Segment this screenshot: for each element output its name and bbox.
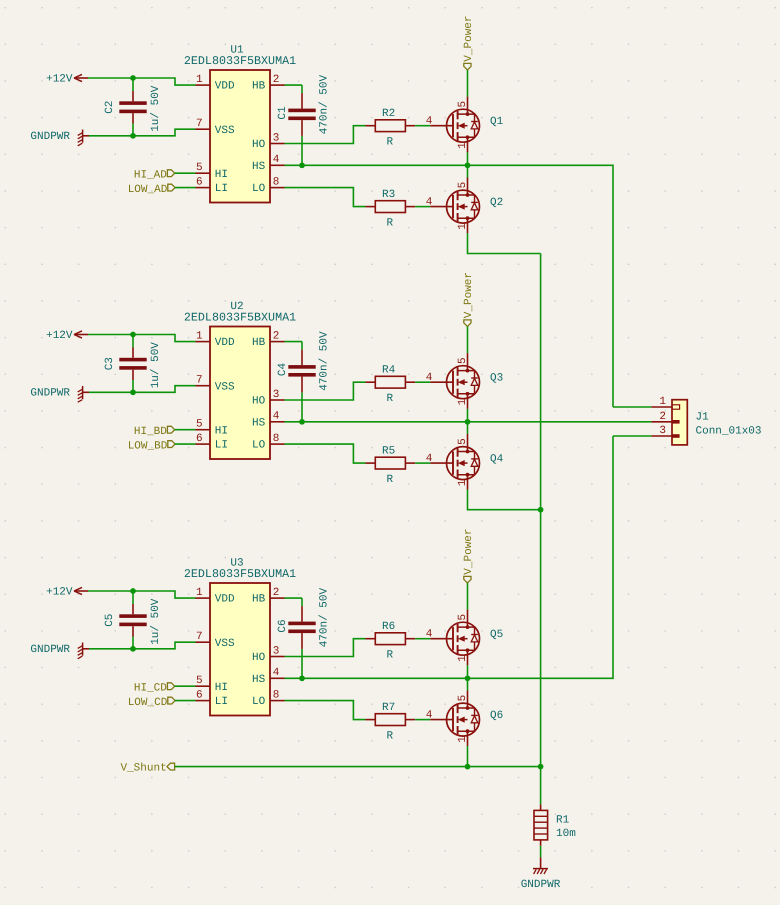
svg-text:R7: R7 [382, 702, 395, 714]
svg-text:V_Power: V_Power [463, 272, 475, 318]
power symbol GNDPWR (bottom) [521, 857, 561, 891]
svg-text:HI_BD: HI_BD [134, 426, 167, 438]
svg-text:2EDL8033F5BXUMA1: 2EDL8033F5BXUMA1 [184, 310, 296, 324]
pin 3 HO [252, 389, 285, 408]
wire HO pin to gate resistor [285, 126, 366, 144]
junction node HS / C6 [299, 675, 305, 681]
svg-text:470n/ 50V: 470n/ 50V [318, 331, 330, 391]
wire LO pin to gate resistor [285, 188, 366, 207]
svg-text:Q4: Q4 [490, 453, 504, 465]
svg-text:5: 5 [196, 162, 203, 174]
svg-text:R: R [386, 650, 393, 662]
svg-text:3: 3 [273, 645, 280, 657]
junction node HS / Q3 source [465, 419, 471, 425]
svg-text:5: 5 [457, 695, 469, 702]
hierarchical label V_Power [463, 272, 475, 327]
junction node GNDPWR / C3 [130, 389, 136, 395]
pin 7 VSS [196, 118, 236, 137]
svg-text:R3: R3 [382, 189, 395, 201]
op-amp/driver IC U3 2EDL8033F5BXUMA1 [184, 558, 296, 716]
pin 5 HI [196, 419, 229, 438]
svg-text:1u/ 50V: 1u/ 50V [150, 598, 162, 645]
wire HS phase C to J1 pin 3 [285, 436, 614, 678]
pin 6 LI [196, 176, 229, 195]
svg-text:Q5: Q5 [490, 629, 503, 641]
svg-text:R6: R6 [382, 621, 395, 633]
svg-text:8: 8 [273, 689, 280, 701]
wire HI_CD to HI pin [175, 685, 196, 687]
svg-text:HB: HB [252, 337, 266, 349]
svg-text:4: 4 [426, 453, 433, 465]
wire Q6 source to V_Shunt net [467, 746, 469, 767]
capacitor C5 1u 50V [104, 591, 162, 649]
transistor Q1 N-MOSFET [426, 97, 504, 153]
wire +12V to junction [88, 77, 133, 79]
svg-text:5: 5 [457, 101, 469, 108]
power symbol +12V [46, 74, 88, 86]
svg-text:5: 5 [457, 438, 469, 445]
junction node V_Shunt [465, 764, 471, 770]
junction node GNDPWR / C2 [130, 133, 136, 139]
power symbol +12V [46, 330, 88, 342]
svg-text:4: 4 [426, 629, 433, 641]
hierarchical label V_Power [463, 15, 475, 70]
op-amp/driver IC U1 2EDL8033F5BXUMA1 [184, 45, 296, 203]
resistor R4 value R [366, 365, 416, 406]
pin 6 LI [196, 689, 229, 708]
svg-text:470n/ 50V: 470n/ 50V [318, 75, 330, 135]
svg-text:5: 5 [196, 419, 203, 431]
pin 6 LI [196, 433, 229, 452]
wire R5 to Q4 gate [415, 462, 430, 464]
svg-text:HB: HB [252, 81, 266, 93]
wire V_Shunt net [175, 766, 541, 768]
wire +12V to junction [88, 334, 133, 336]
svg-text:VDD: VDD [215, 81, 235, 93]
svg-text:6: 6 [196, 689, 203, 701]
svg-text:Q6: Q6 [490, 710, 503, 722]
wire J1 pin 1 [613, 406, 651, 408]
capacitor C4 470n 50V [277, 331, 330, 422]
svg-text:HI: HI [215, 682, 228, 694]
svg-text:VSS: VSS [215, 381, 235, 393]
pin 1 VDD [196, 587, 236, 606]
wire HS net to Q2 drain [467, 165, 469, 177]
power symbol GNDPWR [30, 130, 89, 146]
svg-text:1: 1 [659, 396, 666, 408]
pin 4 HS [252, 411, 285, 430]
svg-text:C3: C3 [104, 357, 116, 370]
junction node +12V / C2 [130, 75, 136, 81]
wire LO pin to gate resistor [285, 444, 366, 463]
svg-text:1: 1 [196, 587, 203, 599]
junction node HS / C4 [299, 419, 305, 425]
svg-text:Conn_01x03: Conn_01x03 [696, 426, 762, 438]
svg-text:8: 8 [273, 176, 280, 188]
svg-text:2EDL8033F5BXUMA1: 2EDL8033F5BXUMA1 [184, 54, 296, 68]
junction node HS / Q5 source [465, 675, 471, 681]
wire V_Power to Q1 drain [467, 70, 469, 97]
wire shunt bus vertical lower [540, 510, 542, 767]
svg-text:+12V: +12V [46, 74, 73, 86]
wire junction to VSS pin [133, 386, 196, 393]
svg-text:HO: HO [252, 139, 266, 151]
pin 1 [651, 396, 679, 409]
pin 3 HO [252, 132, 285, 151]
svg-text:V_Power: V_Power [463, 15, 475, 61]
svg-text:HS: HS [252, 161, 266, 173]
svg-text:10m: 10m [556, 828, 576, 840]
transistor Q4 N-MOSFET [426, 434, 504, 490]
power symbol GNDPWR [30, 643, 89, 659]
wire LO pin to gate resistor [285, 701, 366, 720]
resistor R3 value R [366, 189, 416, 230]
svg-text:4: 4 [426, 196, 433, 208]
wire junction to VDD pin [133, 335, 196, 342]
svg-text:LI: LI [215, 183, 228, 195]
wire junction to VDD pin [133, 591, 196, 598]
svg-text:C6: C6 [277, 619, 289, 632]
svg-text:HI: HI [215, 169, 228, 181]
svg-text:4: 4 [426, 709, 433, 721]
svg-text:1: 1 [457, 655, 469, 662]
hierarchical label HI_BD [134, 426, 175, 438]
svg-text:7: 7 [196, 118, 203, 130]
svg-text:HB: HB [252, 594, 266, 606]
svg-text:1: 1 [196, 330, 203, 342]
capacitor C1 470n 50V [277, 75, 330, 166]
hierarchical label LOW_CD [128, 697, 175, 709]
svg-text:1: 1 [457, 142, 469, 149]
junction node V_Shunt / shunt bus [538, 764, 544, 770]
wire LOW_BD to LI pin [175, 443, 196, 445]
power symbol +12V [46, 587, 88, 599]
svg-text:V_Shunt: V_Shunt [120, 763, 166, 775]
transistor Q6 N-MOSFET [426, 691, 504, 747]
svg-text:2: 2 [659, 411, 666, 423]
svg-text:1u/ 50V: 1u/ 50V [150, 342, 162, 389]
svg-text:3: 3 [659, 425, 666, 437]
svg-text:GNDPWR: GNDPWR [30, 644, 70, 656]
wire +12V to junction [88, 590, 133, 592]
wire R3 to Q2 gate [415, 206, 430, 208]
svg-text:2EDL8033F5BXUMA1: 2EDL8033F5BXUMA1 [184, 567, 296, 581]
wire LOW_CD to LI pin [175, 700, 196, 702]
pin 8 LO [252, 689, 285, 708]
wire HO pin to gate resistor [285, 639, 366, 657]
svg-text:LOW_AD: LOW_AD [128, 184, 168, 196]
svg-text:HI_CD: HI_CD [134, 682, 167, 694]
svg-text:V_Power: V_Power [463, 528, 475, 574]
svg-text:6: 6 [196, 176, 203, 188]
wire HS net to Q6 drain [467, 678, 469, 690]
svg-text:6: 6 [196, 433, 203, 445]
capacitor C3 1u 50V [104, 335, 162, 393]
hierarchical label HI_AD [134, 169, 175, 181]
svg-text:2: 2 [273, 330, 280, 342]
pin 2 HB [252, 330, 285, 349]
svg-text:LI: LI [215, 440, 228, 452]
op-amp/driver IC U2 2EDL8033F5BXUMA1 [184, 301, 296, 459]
resistor R2 value R [366, 108, 416, 149]
junction node +12V / C3 [130, 332, 136, 338]
svg-text:7: 7 [196, 631, 203, 643]
svg-text:5: 5 [196, 675, 203, 687]
power symbol GNDPWR [30, 386, 89, 402]
svg-text:4: 4 [273, 411, 280, 423]
transistor Q5 N-MOSFET [426, 610, 504, 666]
junction node HS / C1 [299, 162, 305, 168]
hierarchical label LOW_BD [128, 440, 175, 452]
svg-text:1u/ 50V: 1u/ 50V [150, 85, 162, 132]
resistor R5 value R [366, 446, 416, 487]
svg-text:LO: LO [252, 696, 266, 708]
wire R1 to GNDPWR [540, 846, 542, 858]
svg-text:LO: LO [252, 183, 266, 195]
svg-text:HS: HS [252, 674, 266, 686]
svg-text:C5: C5 [104, 614, 116, 627]
wire GNDPWR to junction [89, 648, 133, 650]
svg-text:GNDPWR: GNDPWR [30, 131, 70, 143]
svg-text:VDD: VDD [215, 594, 235, 606]
pin 4 HS [252, 154, 285, 173]
svg-text:LOW_BD: LOW_BD [128, 440, 168, 452]
resistor R1 10m (shunt) [534, 804, 576, 845]
resistor R7 value R [366, 702, 416, 743]
svg-text:Q3: Q3 [490, 372, 503, 384]
svg-text:Q1: Q1 [490, 116, 504, 128]
wire LOW_AD to LI pin [175, 187, 196, 189]
svg-text:3: 3 [273, 389, 280, 401]
svg-text:1: 1 [457, 736, 469, 743]
svg-text:VSS: VSS [215, 125, 235, 137]
svg-text:2: 2 [273, 74, 280, 86]
resistor R6 value R [366, 621, 416, 662]
wire GNDPWR to junction [89, 391, 133, 393]
svg-text:+12V: +12V [46, 330, 73, 342]
wire HS phase B to J1 pin 2 [285, 421, 652, 423]
wire Q3 source to HS net [467, 409, 469, 422]
connector J1 Conn_01x03 [651, 396, 761, 445]
pin 3 [651, 425, 679, 438]
pin 1 VDD [196, 330, 236, 349]
wire shunt bus vertical upper [540, 254, 542, 510]
pin 7 VSS [196, 375, 236, 394]
svg-text:1: 1 [457, 398, 469, 405]
pin 5 HI [196, 162, 229, 181]
svg-text:GNDPWR: GNDPWR [521, 879, 561, 891]
wire shunt bus to R1 [540, 767, 542, 805]
svg-text:R: R [386, 218, 393, 230]
junction node shunt bus [538, 507, 544, 513]
svg-text:LI: LI [215, 696, 228, 708]
pin 4 HS [252, 667, 285, 686]
pin 7 VSS [196, 631, 236, 650]
transistor Q2 N-MOSFET [426, 178, 504, 234]
hierarchical label V_Power [463, 528, 475, 583]
hierarchical label LOW_AD [128, 184, 175, 196]
svg-text:1: 1 [457, 479, 469, 486]
wire HO pin to gate resistor [285, 382, 366, 400]
svg-text:R1: R1 [556, 815, 570, 827]
wire junction to VSS pin [133, 129, 196, 136]
wire junction to VSS pin [133, 642, 196, 649]
svg-text:1: 1 [457, 223, 469, 230]
wire Q2 source to shunt bus [468, 233, 541, 253]
transistor Q3 N-MOSFET [426, 353, 504, 409]
junction node +12V / C5 [130, 588, 136, 594]
svg-text:8: 8 [273, 433, 280, 445]
wire HB pin to C6 [285, 597, 303, 599]
wire J1 pin 3 [613, 435, 651, 437]
svg-text:C4: C4 [277, 363, 289, 377]
pin 1 VDD [196, 74, 236, 93]
svg-text:470n/ 50V: 470n/ 50V [318, 588, 330, 648]
svg-text:R5: R5 [382, 446, 395, 458]
pin 8 LO [252, 433, 285, 452]
svg-text:7: 7 [196, 375, 203, 387]
svg-text:4: 4 [273, 154, 280, 166]
pin 2 HB [252, 587, 285, 606]
capacitor C2 1u 50V [104, 78, 162, 136]
pin 2 HB [252, 74, 285, 93]
svg-text:J1: J1 [696, 411, 710, 423]
svg-text:HI: HI [215, 425, 228, 437]
svg-text:5: 5 [457, 357, 469, 364]
wire R6 to Q5 gate [415, 638, 430, 640]
svg-text:4: 4 [426, 116, 433, 128]
wire HB pin to C1 [285, 84, 303, 86]
hierarchical label V_Shunt [120, 763, 174, 775]
svg-text:R2: R2 [382, 108, 395, 120]
svg-text:VDD: VDD [215, 337, 235, 349]
svg-text:3: 3 [273, 132, 280, 144]
wire V_Power to Q3 drain [467, 327, 469, 354]
hierarchical label HI_CD [134, 682, 175, 694]
svg-text:+12V: +12V [46, 587, 73, 599]
wire R7 to Q6 gate [415, 719, 430, 721]
svg-text:HO: HO [252, 652, 266, 664]
svg-text:4: 4 [426, 372, 433, 384]
svg-text:2: 2 [273, 587, 280, 599]
wire R2 to Q1 gate [415, 125, 430, 127]
wire Q1 source to HS net [467, 152, 469, 165]
svg-text:4: 4 [273, 667, 280, 679]
svg-text:C2: C2 [104, 101, 116, 114]
svg-text:C1: C1 [277, 106, 289, 120]
wire HI_BD to HI pin [175, 429, 196, 431]
pin 5 HI [196, 675, 229, 694]
wire GNDPWR to junction [89, 135, 133, 137]
pin 3 HO [252, 645, 285, 664]
wire Q4 source to shunt bus [468, 490, 541, 510]
wire HB pin to C4 [285, 341, 303, 343]
junction node HS / Q1 source [465, 162, 471, 168]
wire HS phase A to J1 pin 1 [285, 165, 614, 407]
svg-text:GNDPWR: GNDPWR [30, 388, 70, 400]
svg-text:HI_AD: HI_AD [134, 169, 167, 181]
pin 2 [651, 411, 679, 424]
svg-text:R: R [386, 393, 393, 405]
svg-text:5: 5 [457, 614, 469, 621]
svg-text:5: 5 [457, 182, 469, 189]
pin 8 LO [252, 176, 285, 195]
wire HI_AD to HI pin [175, 172, 196, 174]
svg-text:VSS: VSS [215, 638, 235, 650]
junction node GNDPWR / C5 [130, 646, 136, 652]
wire Q5 source to HS net [467, 665, 469, 678]
wire junction to VDD pin [133, 78, 196, 85]
wire R4 to Q3 gate [415, 381, 430, 383]
svg-text:Q2: Q2 [490, 197, 503, 209]
svg-text:R: R [386, 137, 393, 149]
svg-text:HO: HO [252, 396, 266, 408]
wire V_Power to Q5 drain [467, 583, 469, 610]
svg-text:LOW_CD: LOW_CD [128, 697, 168, 709]
svg-text:LO: LO [252, 440, 266, 452]
svg-text:R4: R4 [382, 365, 396, 377]
svg-text:R: R [386, 474, 393, 486]
svg-text:1: 1 [196, 74, 203, 86]
capacitor C6 470n 50V [277, 588, 330, 679]
svg-text:HS: HS [252, 417, 266, 429]
svg-text:R: R [386, 731, 393, 743]
wire HS net to Q4 drain [467, 422, 469, 434]
